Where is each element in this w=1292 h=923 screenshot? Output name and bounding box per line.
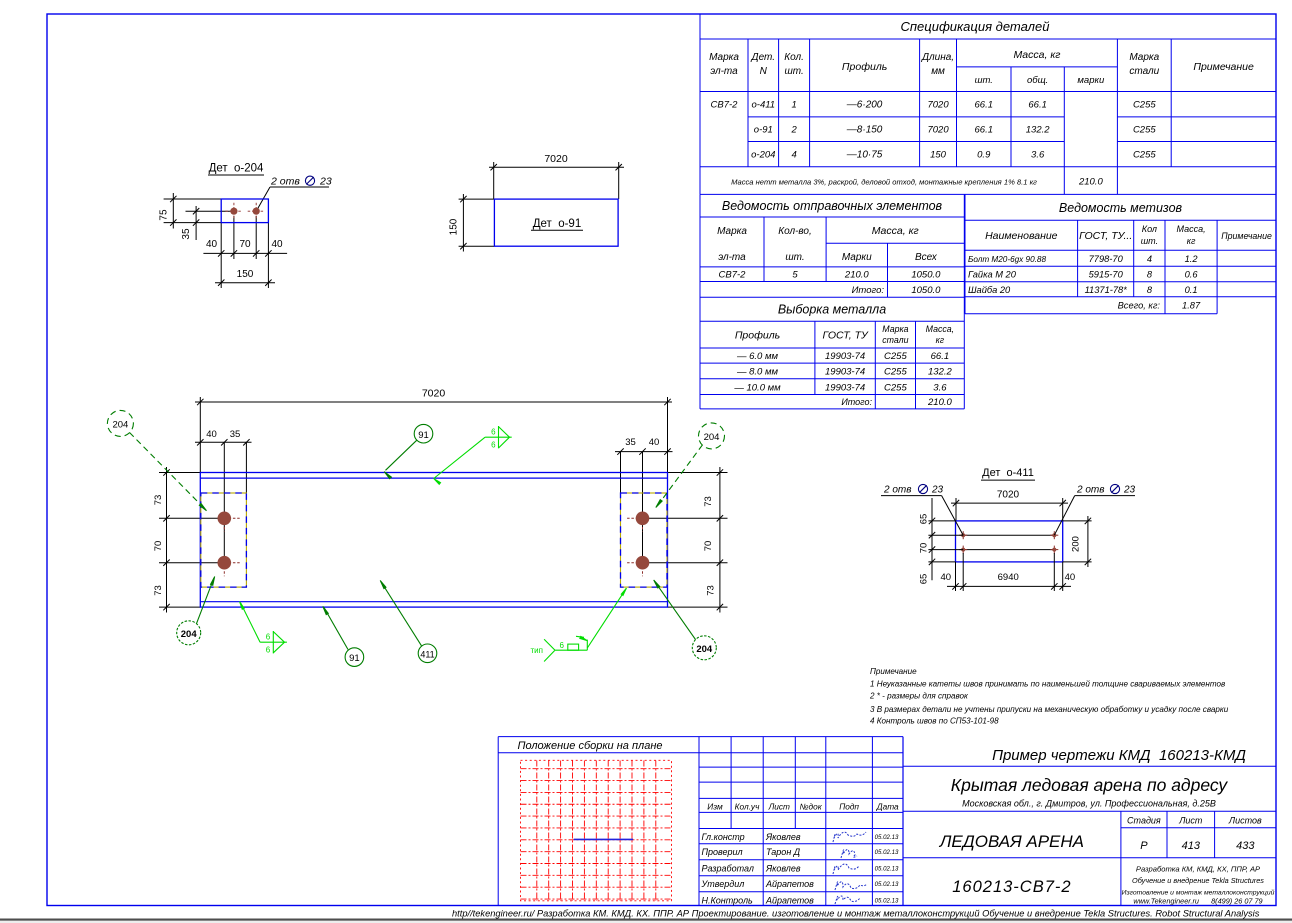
svg-text:— 6.0 мм: — 6.0 мм [736,351,778,362]
svg-text:5: 5 [792,270,798,281]
svg-text:204: 204 [704,432,720,443]
svg-text:шт.: шт. [1141,236,1158,246]
svg-text:23: 23 [931,485,944,496]
svg-text:С255: С255 [1133,125,1156,136]
svg-text:Марки: Марки [842,252,872,263]
svg-text:200: 200 [1071,536,1082,552]
svg-text:1.2: 1.2 [1185,254,1199,264]
svg-text:75: 75 [159,209,170,221]
svg-text:Ведомость отправочных элементо: Ведомость отправочных элементов [722,199,943,213]
svg-text:Р: Р [1140,840,1148,852]
svg-text:7020: 7020 [927,125,949,136]
svg-text:65: 65 [919,514,930,525]
svg-text:ЛЕДОВАЯ АРЕНА: ЛЕДОВАЯ АРЕНА [939,832,1084,851]
svg-text:СВ7-2: СВ7-2 [719,270,747,281]
svg-text:тип: тип [531,646,543,655]
svg-text:Кол: Кол [1142,224,1157,234]
svg-text:Крытая ледовая арена по адресу: Крытая ледовая арена по адресу [951,775,1229,795]
svg-text:40: 40 [206,429,217,440]
svg-text:70: 70 [703,541,714,552]
svg-text:160213-СВ7-2: 160213-СВ7-2 [952,878,1071,896]
svg-text:40: 40 [1065,572,1076,583]
svg-text:Ведомость метизов: Ведомость метизов [1059,201,1183,215]
svg-text:Длина,: Длина, [921,52,954,63]
svg-text:65: 65 [919,574,930,585]
svg-text:Марка: Марка [709,52,739,63]
svg-text:66.1: 66.1 [1028,100,1047,111]
svg-text:Всего, кг:: Всего, кг: [1118,301,1161,311]
svg-text:210.0: 210.0 [927,397,952,408]
svg-text:7020: 7020 [544,153,568,165]
svg-text:Листов: Листов [1228,816,1262,826]
svg-text:204: 204 [181,629,198,640]
svg-text:Яковлев: Яковлев [765,863,801,873]
svg-text:6: 6 [266,632,271,641]
svg-text:8: 8 [1147,285,1153,295]
svg-text:шт.: шт. [784,66,803,77]
svg-text:Примечание: Примечание [1221,231,1272,241]
svg-text:19903-74: 19903-74 [825,382,865,393]
svg-text:35: 35 [625,437,636,448]
svg-text:Итого:: Итого: [852,285,885,296]
svg-text:05.02.13: 05.02.13 [875,865,899,872]
svg-text:70: 70 [239,239,251,250]
svg-text:2 отв: 2 отв [1076,485,1104,496]
svg-text:40: 40 [206,239,218,250]
svg-text:19903-74: 19903-74 [825,367,865,378]
svg-text:эл-та: эл-та [718,252,746,263]
svg-text:4 Контроль швов по СП53-101-9: 4 Контроль швов по СП53-101-98 [870,717,999,726]
svg-text:11371-78*: 11371-78* [1085,285,1128,295]
svg-text:Пример чертежи КМД 160213-КМД: Пример чертежи КМД 160213-КМД [992,747,1246,764]
svg-text:1050.0: 1050.0 [911,285,941,296]
svg-text:5915-70: 5915-70 [1089,269,1124,279]
svg-text:Лист: Лист [1178,816,1203,826]
svg-text:66.1: 66.1 [975,125,994,136]
svg-text:05.02.13: 05.02.13 [875,849,899,856]
svg-text:СВ7-2: СВ7-2 [711,100,739,111]
svg-text:Выборка металла: Выборка металла [778,303,886,317]
svg-text:Всех: Всех [915,252,938,263]
svg-text:www.Tekengineer.ru 8(499): www.Tekengineer.ru 8(499) 26 07 79 [1133,896,1262,905]
svg-text:210.0: 210.0 [1078,177,1103,188]
svg-text:210.0: 210.0 [844,270,869,281]
svg-text:Н.Контроль: Н.Контроль [702,895,754,905]
svg-text:66.1: 66.1 [931,351,950,362]
svg-text:Марка: Марка [882,324,908,334]
svg-text:Гайка М 20: Гайка М 20 [968,269,1017,279]
svg-text:6: 6 [266,645,271,654]
svg-text:413: 413 [1182,840,1201,852]
svg-text:С255: С255 [1133,150,1156,161]
svg-text:73: 73 [153,585,164,596]
svg-text:73: 73 [153,495,164,506]
svg-text:6940: 6940 [998,572,1019,583]
svg-text:35: 35 [181,228,192,240]
svg-text:23: 23 [319,176,332,188]
svg-text:С255: С255 [884,382,907,393]
svg-text:шт.: шт. [785,252,804,263]
svg-text:Московская обл., г. Дмитров, у: Московская обл., г. Дмитров, ул. Професс… [962,799,1216,809]
svg-text:С255: С255 [884,367,907,378]
svg-text:стали: стали [1129,66,1159,77]
svg-text:3.6: 3.6 [933,382,947,393]
svg-text:05.02.13: 05.02.13 [875,881,899,888]
svg-text:204: 204 [112,419,128,430]
svg-text:о-91: о-91 [754,125,773,136]
svg-text:стали: стали [882,335,908,345]
svg-text:Стадия: Стадия [1127,816,1161,826]
svg-text:66.1: 66.1 [975,100,994,111]
svg-text:Масса,: Масса, [1177,224,1206,234]
svg-text:2: 2 [790,125,797,136]
svg-text:марки: марки [1077,75,1105,86]
svg-text:о-204: о-204 [751,150,775,161]
svg-text:Итого:: Итого: [841,397,872,407]
svg-text:2 отв: 2 отв [270,176,300,188]
svg-text:эл-та: эл-та [710,66,738,77]
svg-text:Болт М20-6gх 90.88: Болт М20-6gх 90.88 [968,255,1046,264]
svg-text:— 8.0 мм: — 8.0 мм [736,367,778,378]
svg-text:150: 150 [237,269,254,280]
svg-text:Масса,: Масса, [926,324,954,334]
svg-text:ГОСТ, ТУ...: ГОСТ, ТУ... [1079,230,1132,242]
svg-text:Проверил: Проверил [702,847,743,857]
svg-text:Айрапетов: Айрапетов [765,895,814,905]
svg-text:150: 150 [449,218,460,235]
svg-text:4: 4 [791,150,796,161]
svg-text:Утвердил: Утвердил [701,879,745,889]
svg-text:Подп: Подп [839,802,859,812]
svg-text:7798-70: 7798-70 [1089,254,1124,264]
svg-text:С255: С255 [884,351,907,362]
svg-text:73: 73 [703,496,714,507]
svg-text:73: 73 [706,585,717,596]
svg-text:19903-74: 19903-74 [825,351,865,362]
svg-text:40: 40 [941,572,952,583]
svg-text:Марка: Марка [1129,52,1159,63]
svg-text:204: 204 [696,644,713,655]
svg-text:70: 70 [919,543,930,554]
svg-text:—10·75: —10·75 [846,150,883,161]
svg-text:http//tekengineer.ru/ Разрабо: http//tekengineer.ru/ Разработка КМ. КМД… [452,909,1260,919]
svg-text:Изготовление и монтаж металлок: Изготовление и монтаж металлоконструкций [1122,888,1275,896]
svg-text:Марка: Марка [717,226,747,237]
svg-text:Масса нетт металла 3%, раскро: Масса нетт металла 3%, раскрой, деловой … [731,178,1037,187]
svg-text:4: 4 [1147,254,1152,264]
svg-text:05.02.13: 05.02.13 [875,897,899,904]
svg-text:мм: мм [931,66,945,77]
svg-text:35: 35 [230,429,241,440]
svg-text:6: 6 [491,440,496,449]
svg-text:Дет о-411: Дет о-411 [982,467,1034,479]
svg-text:Яковлев: Яковлев [765,832,801,842]
svg-text:23: 23 [1123,485,1136,496]
svg-text:6: 6 [560,641,565,650]
svg-text:0.1: 0.1 [1185,285,1198,295]
svg-text:Шайба 20: Шайба 20 [968,285,1011,295]
svg-text:—8·150: —8·150 [846,125,883,136]
svg-text:6: 6 [491,427,496,436]
svg-text:40: 40 [649,437,660,448]
svg-text:Тарон Д: Тарон Д [766,847,801,857]
svg-text:о-411: о-411 [752,100,776,111]
svg-text:— 10.0 мм: — 10.0 мм [733,382,781,393]
svg-text:N: N [760,66,768,77]
svg-text:7020: 7020 [997,490,1020,501]
svg-text:70: 70 [153,541,164,552]
svg-text:2 отв: 2 отв [883,485,911,496]
svg-text:Примечание: Примечание [1193,61,1254,73]
svg-text:0.9: 0.9 [977,150,991,161]
svg-text:2 * - размеры для справок: 2 * - размеры для справок [869,692,969,701]
svg-text:Профиль: Профиль [735,330,780,342]
svg-text:кг: кг [1187,236,1196,246]
svg-text:общ.: общ. [1027,75,1048,86]
svg-text:Гл.констр: Гл.констр [702,832,745,842]
svg-text:132.2: 132.2 [1026,125,1050,136]
svg-text:91: 91 [418,430,429,441]
svg-text:Положение сборки на плане: Положение сборки на плане [517,740,662,752]
svg-text:Обучение и внедрение Tekla St: Обучение и внедрение Tekla Structures [1132,876,1264,885]
svg-text:Спецификация деталей: Спецификация деталей [901,19,1050,34]
svg-text:Кол.: Кол. [784,52,804,63]
svg-text:№док: №док [800,802,823,812]
svg-text:Дет о-91: Дет о-91 [533,218,581,230]
svg-text:40: 40 [271,239,283,250]
svg-text:1.87: 1.87 [1182,301,1201,311]
svg-text:Изм: Изм [707,802,723,812]
svg-text:Дет.: Дет. [751,52,776,63]
svg-text:0.6: 0.6 [1185,269,1199,279]
svg-text:1 Неуказанные катеты швов при: 1 Неуказанные катеты швов принимать по н… [870,679,1225,688]
svg-text:Разработал: Разработал [702,863,754,873]
svg-text:Дата: Дата [876,802,899,812]
svg-text:3.6: 3.6 [1031,150,1045,161]
svg-text:05.02.13: 05.02.13 [875,834,899,841]
svg-text:Кол.уч: Кол.уч [735,802,760,812]
svg-text:7020: 7020 [927,100,949,111]
svg-text:ГОСТ, ТУ: ГОСТ, ТУ [822,330,868,342]
svg-text:150: 150 [930,150,947,161]
svg-text:8: 8 [1147,269,1153,279]
svg-text:—6·200: —6·200 [846,100,883,111]
svg-text:91: 91 [349,653,360,664]
svg-text:С255: С255 [1133,100,1156,111]
svg-text:Профиль: Профиль [842,61,887,73]
svg-text:Дет о-204: Дет о-204 [209,163,264,175]
svg-text:шт.: шт. [975,75,993,86]
svg-text:Разработка КМ, КМД, КХ, ППР, А: Разработка КМ, КМД, КХ, ППР, АР [1136,864,1261,873]
svg-text:132.2: 132.2 [928,367,952,378]
svg-text:Наименование: Наименование [985,230,1058,242]
svg-text:7020: 7020 [422,388,446,400]
svg-text:1050.0: 1050.0 [911,270,941,281]
svg-text:433: 433 [1236,840,1255,852]
svg-text:кг: кг [936,335,945,345]
svg-text:Айрапетов: Айрапетов [765,879,814,889]
svg-text:Примечание: Примечание [870,667,917,676]
svg-text:3 В размерах детали не учтены: 3 В размерах детали не учтены припуски н… [870,705,1229,714]
svg-text:Кол-во,: Кол-во, [778,226,812,237]
svg-text:411: 411 [420,649,434,659]
svg-text:Лист: Лист [768,802,790,812]
svg-text:1: 1 [791,100,796,111]
svg-text:Масса, кг: Масса, кг [1013,49,1060,61]
svg-text:Масса, кг: Масса, кг [872,225,919,237]
